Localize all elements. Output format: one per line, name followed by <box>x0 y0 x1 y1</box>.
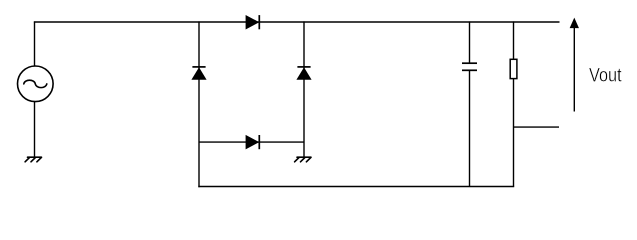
diode D3 (right branch, pointing up) <box>297 67 310 79</box>
diode D4 (middle rail, pointing right) <box>246 135 259 149</box>
wire left bridge branch vertical <box>198 21 200 187</box>
wire resistor top lead <box>513 21 515 59</box>
AC source V1 <box>18 66 54 102</box>
capacitor C1 <box>462 63 477 70</box>
diode D1 (top rail, pointing right) <box>246 15 259 29</box>
ground G1 (below AC source) <box>25 157 41 162</box>
wire output stub to the right <box>514 126 560 128</box>
svg-text:Vout: Vout <box>589 65 622 87</box>
wire resistor bottom lead <box>513 79 515 187</box>
wire capacitor top lead <box>469 21 471 62</box>
ground G2 (below right branch) <box>295 157 311 162</box>
diode D2 (left branch, pointing up) <box>192 67 205 79</box>
wire AC source top lead <box>34 21 36 66</box>
wire capacitor bottom lead <box>469 71 471 187</box>
wire AC source bottom lead <box>34 102 36 157</box>
wire middle rail between bridge branches <box>199 141 304 143</box>
resistor R1 (box style) <box>510 59 517 78</box>
Vout annotation arrow <box>570 19 578 112</box>
wire bottom rail <box>198 186 514 188</box>
wire top rail from AC source to right end <box>34 21 560 23</box>
wire right bridge branch vertical <box>303 21 305 157</box>
